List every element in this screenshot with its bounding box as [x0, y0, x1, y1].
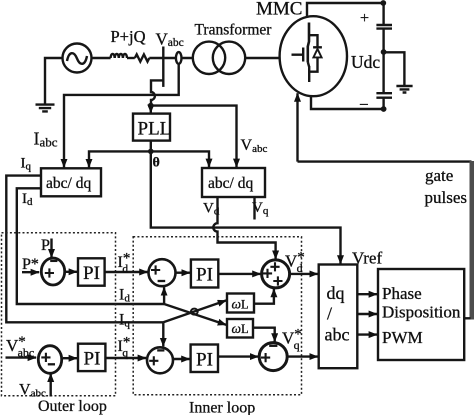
Vd wire with hop	[213, 197, 275, 259]
V*abc input wire	[6, 356, 37, 358]
IGBT	[308, 23, 309, 63]
wire PI2 to q sum (Iq*)	[105, 357, 146, 359]
svg-text:PLL: PLL	[138, 119, 172, 140]
Iq wire to wL top	[163, 300, 226, 322]
resistor	[135, 54, 150, 61]
PI box 4	[191, 345, 218, 373]
wire sensor to left abc/dq (Iabc)	[64, 64, 179, 168]
node Vabc/PLL junction	[148, 103, 154, 109]
svg-text:gate: gate	[425, 166, 453, 185]
crossover loop	[191, 309, 198, 315]
gate pulses wire	[296, 93, 298, 161]
wire PI3 to Vd sum	[218, 273, 260, 275]
wire Vq sum to dq/abc	[287, 355, 318, 357]
svg-text:PI: PI	[196, 350, 213, 371]
freewheel diode	[309, 35, 322, 71]
wire P sum to PI1	[66, 271, 77, 273]
wire node to right abc/dq (Vabc measurement)	[151, 106, 237, 168]
svg-text:ωL: ωL	[232, 321, 249, 336]
left abc/dq box	[41, 168, 101, 196]
dq/abc box	[319, 265, 358, 369]
ground (DC link)	[396, 86, 412, 93]
wire source to inductor	[92, 57, 111, 59]
svg-text:Inner loop: Inner loop	[189, 400, 255, 415]
AC source	[63, 44, 92, 73]
svg-text:Vq: Vq	[252, 200, 269, 217]
node DC mid	[381, 49, 387, 55]
svg-text:P: P	[41, 237, 50, 254]
theta wire to dq/abc	[151, 151, 341, 263]
PLL box	[133, 114, 170, 141]
wire wL bottom to Vq sum	[253, 328, 275, 342]
summing junction V	[38, 346, 61, 374]
wires dq/abc to PWM	[357, 293, 377, 295]
svg-text:PI: PI	[83, 263, 100, 284]
theta wire to right abc/dq	[151, 151, 209, 167]
wL box bottom	[227, 319, 253, 338]
summing junction Vd*	[262, 260, 290, 288]
summing junction P	[41, 258, 64, 285]
svg-text:Id: Id	[119, 287, 130, 305]
svg-text:Vabc: Vabc	[241, 137, 268, 155]
P* input wire	[22, 271, 39, 273]
wire source to ground	[45, 58, 63, 104]
wL box top	[227, 294, 254, 313]
svg-text:Transformer: Transformer	[195, 22, 273, 39]
PI box 2	[78, 344, 105, 371]
wire V sum to PI2	[63, 357, 77, 359]
gate pulses bus thick	[469, 161, 474, 320]
svg-text:PWM: PWM	[382, 328, 423, 347]
Id wire to wL bottom	[164, 304, 226, 325]
ground (source)	[36, 105, 55, 112]
svg-text:Udc: Udc	[351, 52, 380, 72]
Iq output wire	[6, 176, 163, 323]
svg-text:Id: Id	[22, 191, 33, 208]
wire PI1 to d sum (Id*)	[105, 271, 148, 273]
svg-text:Vref: Vref	[352, 249, 382, 268]
wire mid to DC ground	[384, 52, 405, 85]
svg-text:Disposition: Disposition	[382, 303, 461, 322]
inner loop dashed box	[133, 237, 301, 395]
right abc/dq box	[202, 168, 265, 197]
svg-text:ωL: ωL	[232, 297, 249, 312]
svg-text:P+jQ: P+jQ	[111, 27, 146, 46]
svg-text:I*q: I*q	[118, 335, 131, 360]
MMC converter circle	[280, 16, 347, 96]
svg-text:V*abc: V*abc	[6, 334, 34, 360]
summing junction Vq*	[259, 343, 287, 371]
svg-text:Phase: Phase	[382, 284, 422, 303]
svg-text:PI: PI	[84, 349, 101, 370]
summing junction d-axis	[149, 259, 176, 286]
svg-text:/: /	[327, 304, 332, 324]
wire inductor to resistor	[127, 57, 135, 59]
svg-text:PI: PI	[196, 265, 213, 286]
svg-text:pulses: pulses	[425, 188, 468, 207]
wire transformer to MMC	[245, 57, 280, 59]
wire PI4 to Vq sum	[218, 355, 258, 357]
Vabc feedback wire	[50, 373, 52, 396]
wire wL top to Vd sum	[254, 289, 274, 304]
svg-text:dq: dq	[327, 283, 345, 303]
wire node to PLL	[150, 106, 152, 113]
svg-text:θ: θ	[153, 156, 160, 171]
svg-text:Iabc: Iabc	[34, 129, 58, 150]
Vabc tap stub	[162, 47, 164, 87]
PWM box	[378, 269, 464, 360]
wire MMC bottom to DC minus rail	[311, 96, 384, 109]
PI box 1	[78, 258, 105, 285]
Id wire into d sum	[163, 287, 165, 304]
wire q sum to PI4	[173, 358, 190, 360]
svg-text:abc/ dq: abc/ dq	[208, 175, 253, 192]
P input wire	[50, 239, 52, 258]
summing junction q-axis	[147, 347, 173, 373]
node DC plus	[380, 0, 386, 6]
inductor P+jQ	[111, 54, 127, 58]
svg-text:Vabc: Vabc	[156, 30, 184, 50]
svg-text:Vabc: Vabc	[19, 382, 46, 400]
svg-text:Outer loop: Outer loop	[38, 398, 107, 415]
wire MMC top to DC rail	[307, 3, 383, 17]
wire d sum to PI3	[176, 272, 191, 274]
node DC minus	[381, 106, 387, 112]
svg-text:Iq: Iq	[119, 312, 130, 330]
node theta junction	[148, 149, 154, 155]
outer loop dashed box	[2, 233, 116, 396]
svg-text:abc/ dq: abc/ dq	[46, 175, 91, 192]
svg-text:P*: P*	[22, 256, 39, 273]
capacitor C2	[376, 52, 392, 109]
Vabc tap jog wire	[151, 80, 163, 105]
svg-text:Iq: Iq	[21, 156, 32, 173]
theta wire to left abc/dq	[89, 151, 151, 167]
svg-text:−: −	[359, 95, 369, 114]
current sensor	[176, 52, 182, 64]
capacitor C1	[376, 3, 392, 52]
Vq stub wire	[253, 197, 255, 220]
svg-text:+: +	[360, 10, 369, 27]
svg-text:abc: abc	[325, 325, 350, 345]
PI box 3	[191, 260, 218, 288]
transformer	[193, 42, 225, 74]
theta wire from PLL	[150, 141, 152, 152]
wire resistor to transformer	[149, 57, 193, 59]
Iq wire into q sum	[162, 322, 164, 346]
Id output wire	[17, 188, 164, 304]
svg-text:MMC: MMC	[256, 0, 302, 20]
wire Vd sum to dq/abc	[290, 273, 318, 275]
